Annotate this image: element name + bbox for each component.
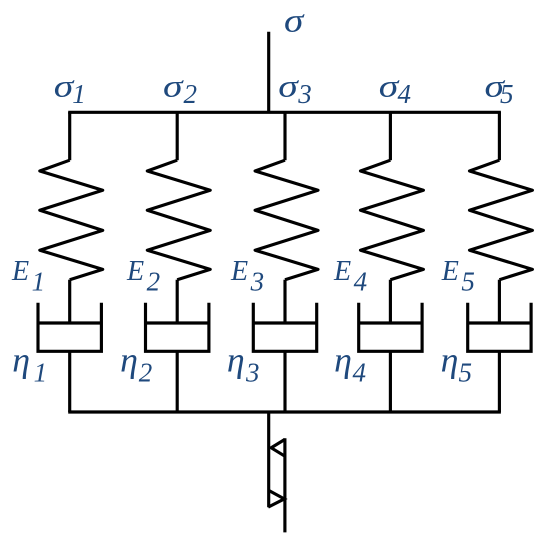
spring E3 <box>255 160 318 280</box>
svg-text:2: 2 <box>139 358 153 388</box>
svg-text:3: 3 <box>297 79 312 109</box>
wire: branch 5 top stub <box>498 112 501 160</box>
wire: bottom feed right rail <box>283 438 286 532</box>
label sigma2 <box>163 68 197 109</box>
arrowhead lower (points right) <box>268 490 284 507</box>
label eta3 <box>227 341 260 387</box>
svg-text:4: 4 <box>353 358 367 388</box>
svg-text:1: 1 <box>72 79 86 109</box>
label eta4 <box>334 341 366 387</box>
spring E5 <box>470 160 533 280</box>
wire: branch 2 spring to dashpot <box>176 280 179 323</box>
svg-text:3: 3 <box>245 358 260 388</box>
svg-text:5: 5 <box>500 79 514 109</box>
spring E4 <box>361 160 424 280</box>
arrowhead upper (points left) <box>271 439 285 456</box>
dashpot eta3 <box>253 303 316 352</box>
svg-text:η: η <box>334 341 352 379</box>
wire: branch 3 spring to dashpot <box>283 280 286 323</box>
dashpot eta4 <box>359 303 422 352</box>
label sigma4 <box>379 68 411 109</box>
spring E2 <box>147 160 210 280</box>
wire: branch 3 top stub <box>283 112 286 160</box>
dashpot eta2 <box>146 303 209 352</box>
svg-text:E1: E1 <box>11 256 45 297</box>
wire: branch 5 spring to dashpot <box>498 280 501 323</box>
dashpot eta1 <box>38 303 101 352</box>
wire: branch 1 top stub <box>68 112 71 160</box>
svg-text:σ: σ <box>284 2 306 39</box>
label E3 <box>230 256 264 297</box>
svg-text:4: 4 <box>398 79 412 109</box>
wire: branch 2 top stub <box>176 112 179 160</box>
wire: top feed from sigma <box>267 32 270 113</box>
label E1 <box>11 256 45 297</box>
dashpot eta5 <box>468 303 531 352</box>
wire: branch 1 dashpot to bottom bus <box>68 351 71 412</box>
label E5 <box>441 256 475 297</box>
label sigma5 <box>485 68 514 109</box>
wire: branch 3 dashpot to bottom bus <box>283 351 286 412</box>
svg-text:E4: E4 <box>333 256 367 297</box>
label eta2 <box>120 341 152 387</box>
svg-text:2: 2 <box>184 79 198 109</box>
svg-text:η: η <box>12 341 30 379</box>
wire: branch 4 dashpot to bottom bus <box>389 351 392 412</box>
svg-text:η: η <box>227 341 245 379</box>
wire: branch 1 spring to dashpot <box>68 280 71 323</box>
svg-text:5: 5 <box>459 358 473 388</box>
label sigma3 <box>278 68 311 109</box>
label E2 <box>126 256 160 297</box>
svg-text:η: η <box>441 341 459 379</box>
label sigma1 <box>54 68 86 109</box>
svg-text:σ: σ <box>163 68 184 103</box>
svg-text:E3: E3 <box>230 256 264 297</box>
label E4 <box>333 256 367 297</box>
wire: branch 4 spring to dashpot <box>389 280 392 323</box>
wire: branch 2 dashpot to bottom bus <box>176 351 179 412</box>
wire: top bus <box>68 111 501 114</box>
svg-text:σ: σ <box>278 68 299 103</box>
svg-text:E5: E5 <box>441 256 475 297</box>
wire: bottom bus <box>68 410 501 413</box>
wire: branch 4 top stub <box>389 112 392 160</box>
label eta1 <box>12 341 47 387</box>
svg-text:E2: E2 <box>126 256 160 297</box>
spring E1 <box>40 160 103 280</box>
label sigma (applied stress) <box>284 2 306 39</box>
svg-text:η: η <box>120 341 138 379</box>
wire: bottom feed left rail <box>267 412 270 507</box>
svg-text:1: 1 <box>34 358 48 388</box>
label eta5 <box>441 341 472 387</box>
wire: branch 5 dashpot to bottom bus <box>498 351 501 412</box>
